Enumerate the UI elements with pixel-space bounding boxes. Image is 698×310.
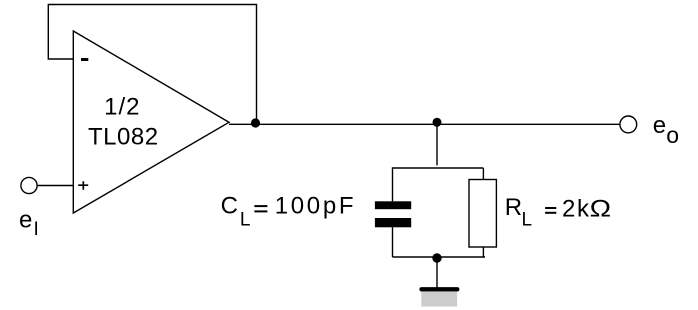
node output junction dot [251,118,260,127]
op-amp plus input label [78,181,88,189]
svg-text:100pF: 100pF [275,192,357,219]
svg-text:L: L [240,210,251,231]
wire load network bottom rail [393,256,486,258]
svg-text:TL082: TL082 [88,124,159,151]
wire load network top rail [393,167,484,169]
wire input terminal to plus input [37,185,73,187]
svg-text:e: e [19,207,32,234]
wire output from op-amp to output terminal [229,123,620,125]
svg-text:C: C [221,192,238,219]
svg-text:Ω: Ω [590,196,612,223]
op-amp minus input label [81,58,88,61]
output terminal circle [620,116,637,133]
capacitor CL plate bottom [375,218,411,227]
svg-text:1/2: 1/2 [104,94,140,121]
svg-text:e: e [653,112,666,139]
svg-text:R: R [505,194,522,221]
op-amp U1 triangle 1/2 TL082 [73,31,229,213]
node bottom junction dot [432,253,441,262]
capacitor CL plate top [375,201,411,209]
node load junction dot [433,118,442,127]
wire resistor branch upper [482,168,484,180]
svg-text:L: L [522,210,533,231]
wire from bottom node to ground [436,258,438,288]
wire capacitor branch upper [392,167,394,201]
ground symbol pad [421,291,457,306]
ground symbol bar [422,287,458,291]
wire resistor branch lower [482,247,484,257]
svg-text:2k: 2k [562,196,591,223]
wire feedback loop from output node over the top to inverting input [48,5,256,124]
wire stub from output wire down to load network [436,124,438,165]
resistor RL box [469,180,496,248]
wire capacitor branch lower [392,227,394,257]
svg-text:o: o [666,122,679,148]
input terminal circle [21,177,37,193]
svg-text:I: I [34,219,39,240]
